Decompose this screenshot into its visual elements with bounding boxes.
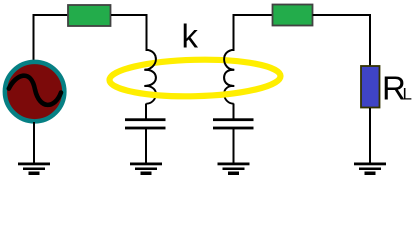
inductor L2 upper arcs redrawn over ellipse xyxy=(224,50,234,86)
wire: L1 bottom to C1 xyxy=(145,104,147,120)
wire: R1 right to coil L1 top corner xyxy=(111,14,148,16)
coupling ellipse (yellow highlight) xyxy=(109,58,281,98)
inductor L2 (secondary winding, humps left) xyxy=(224,50,234,104)
wire: RL bottom to ground xyxy=(369,108,371,164)
resistor RL (blue, load) xyxy=(361,66,380,108)
ground (C1) xyxy=(130,163,162,176)
resistor R2 (green) xyxy=(273,5,313,26)
ground (RL) xyxy=(354,163,386,176)
inductor L1 upper arcs redrawn over ellipse xyxy=(144,50,156,86)
ground (source) xyxy=(18,163,50,176)
ground (C2) xyxy=(218,163,250,176)
wire: vertical down into L1 xyxy=(146,14,148,51)
wire: source bottom to ground xyxy=(33,122,35,164)
svg-text:L: L xyxy=(403,85,412,104)
wire: L2 bottom to C2 xyxy=(233,104,235,120)
inductor L1 (primary winding, humps right) xyxy=(144,50,156,104)
wire: vertical up from L2 to top xyxy=(233,14,235,51)
wire: C2 bottom to ground xyxy=(233,129,235,164)
wire: top horizontal L2 to R2 xyxy=(233,14,274,16)
svg-text:k: k xyxy=(182,18,199,55)
capacitor C1 xyxy=(125,118,166,129)
resistor R1 (green) xyxy=(68,5,111,26)
wire: C1 bottom to ground xyxy=(145,129,147,164)
wire: vertical down to source top xyxy=(33,14,35,60)
wire: top-left horizontal from source branch to R1 xyxy=(33,14,69,16)
wire: R2 right to RL branch xyxy=(313,14,372,16)
AC source V1 (sine source) xyxy=(5,62,65,122)
capacitor C2 xyxy=(213,118,254,129)
wire: vertical down to RL xyxy=(369,14,371,66)
